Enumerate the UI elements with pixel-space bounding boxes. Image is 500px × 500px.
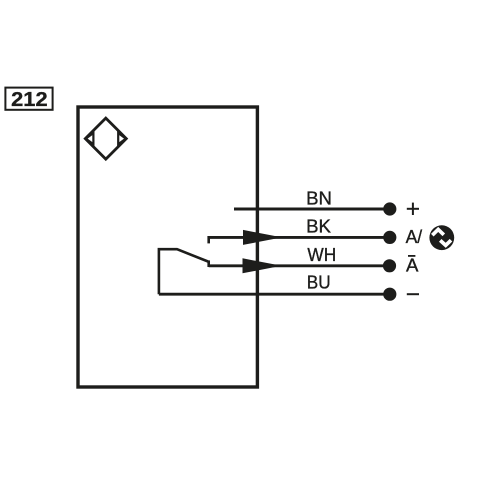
svg-text:212: 212: [11, 88, 47, 111]
wire BK: [209, 236, 390, 239]
terminal dot BN: [383, 202, 396, 215]
antivalent output icon: [429, 225, 454, 250]
svg-text:BU: BU: [307, 272, 331, 293]
output arrow WH: [243, 258, 282, 273]
svg-text:A/: A/: [406, 226, 423, 247]
terminal label minus: [407, 293, 419, 295]
switch lever: [159, 249, 208, 294]
WH contact stub: [207, 260, 210, 267]
proximity sensor symbol: right triangle: [118, 133, 126, 144]
terminal label A-bar: [406, 255, 419, 276]
terminal dot BK: [383, 231, 396, 244]
svg-text:A: A: [406, 255, 419, 276]
wire WH: [209, 264, 390, 267]
proximity sensor symbol: left triangle: [86, 133, 94, 144]
svg-text:BN: BN: [306, 188, 332, 209]
terminal dot BU: [383, 288, 396, 301]
BK contact stub: [207, 236, 210, 243]
wire BN: [234, 208, 390, 211]
sensor body outline: [78, 107, 257, 387]
terminal dot WH: [383, 259, 396, 272]
output arrow BK: [243, 230, 282, 245]
figure number box 212: [5, 88, 52, 112]
wire BU: [159, 293, 390, 296]
proximity sensor symbol: diamond: [85, 118, 126, 159]
svg-text:WH: WH: [307, 244, 336, 265]
svg-text:BK: BK: [306, 215, 331, 236]
terminal label plus: [407, 203, 419, 215]
